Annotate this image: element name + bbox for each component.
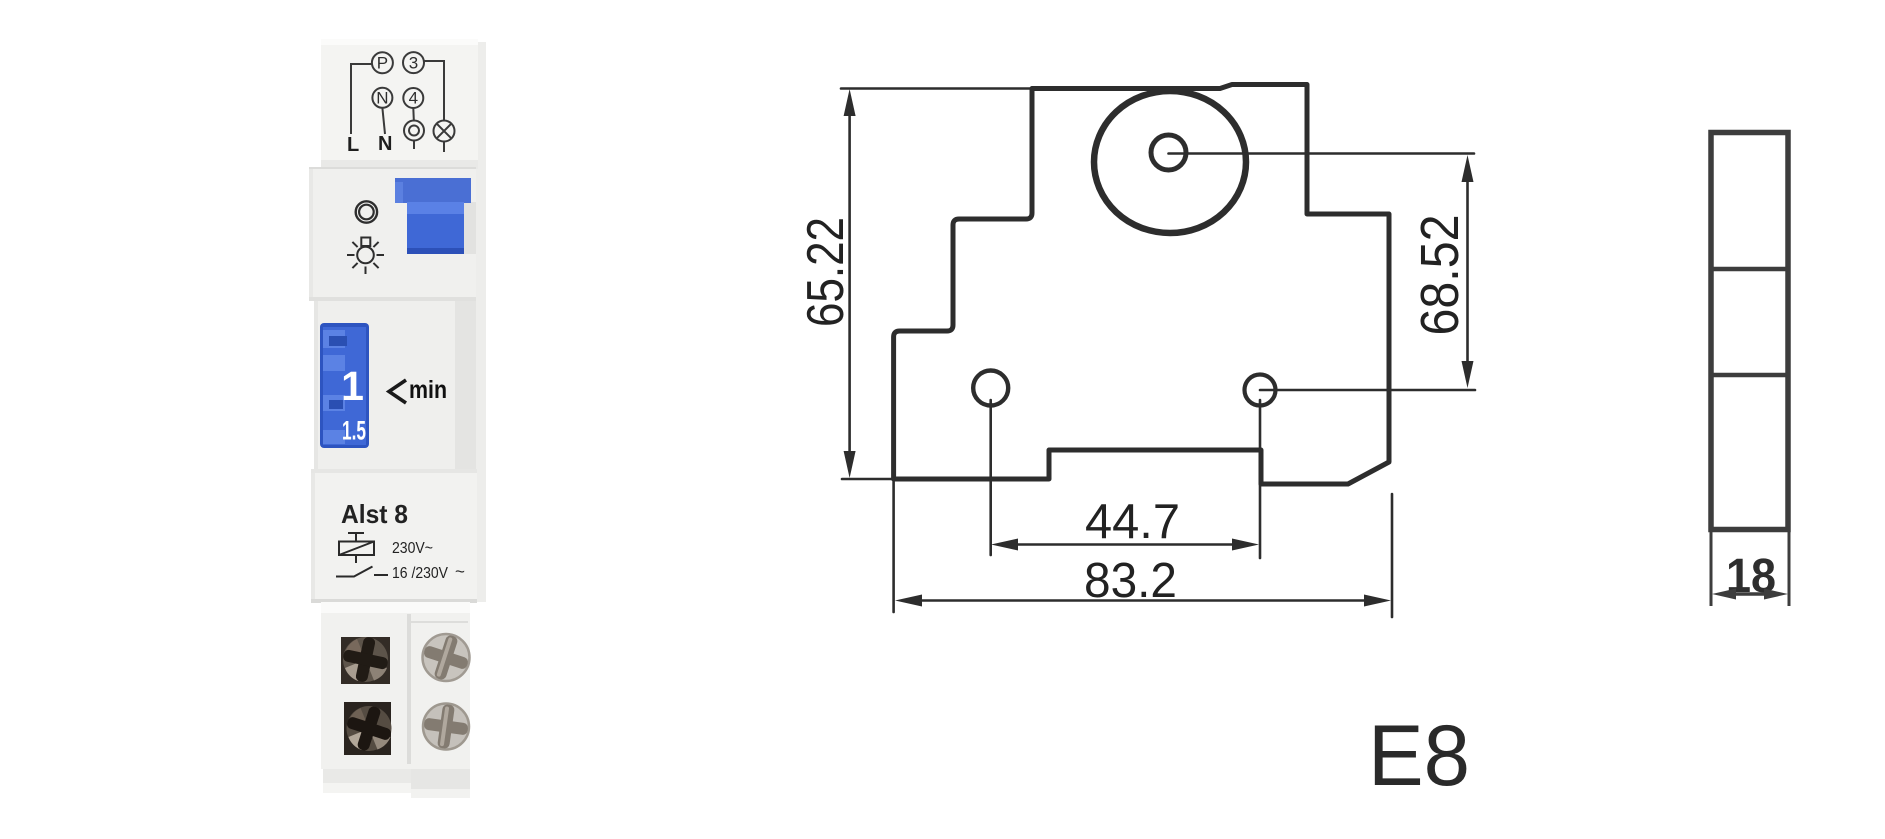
knob circle — [1094, 91, 1246, 233]
ring icon — [356, 201, 377, 222]
svg-text:3: 3 — [409, 53, 418, 72]
screw row1 left — [339, 633, 392, 686]
wiring diagram stub below output — [413, 141, 415, 150]
extension left — [1710, 530, 1713, 606]
mounting hole right — [1245, 375, 1276, 406]
section 2 body — [309, 169, 476, 301]
terminal circle 3 — [403, 52, 424, 73]
svg-text:1: 1 — [341, 363, 364, 409]
profile outline — [1711, 133, 1788, 530]
dimension 44.7 line — [1006, 543, 1244, 546]
dimension 68.52 line — [1466, 170, 1469, 373]
column gap shadow — [407, 614, 411, 764]
terminal circle N — [372, 88, 392, 108]
svg-text:16 /230V: 16 /230V — [392, 565, 448, 582]
screw row1 right — [418, 629, 475, 686]
wiring diagram wire L — [351, 64, 372, 134]
section 4 label area — [311, 469, 477, 602]
svg-text:4: 4 — [409, 89, 418, 108]
bulb icon — [347, 238, 384, 275]
svg-text:min: min — [409, 376, 447, 404]
section 3 body — [314, 301, 476, 469]
extension line below right hole — [1259, 400, 1262, 558]
bottom terminal block — [311, 599, 477, 798]
bottom fade shadow — [323, 769, 411, 783]
svg-text:230V~: 230V~ — [392, 540, 433, 557]
extension line bottom-left — [842, 478, 894, 481]
divider 1 — [1711, 267, 1788, 272]
terminal circle P — [372, 52, 393, 73]
wiring diagram wire lamp branch — [424, 61, 444, 120]
housing outline — [894, 85, 1389, 485]
svg-text:83.2: 83.2 — [1084, 554, 1177, 608]
less-than min marking — [389, 380, 406, 403]
terminal circle 4 — [403, 88, 423, 108]
lamp symbol — [434, 121, 455, 142]
wiring diagram wire N — [382, 108, 385, 134]
extension right — [1788, 530, 1791, 606]
svg-text:P: P — [377, 54, 388, 73]
svg-text:Alst 8: Alst 8 — [341, 499, 408, 529]
mounting hole left — [973, 371, 1008, 406]
contact symbol — [336, 567, 388, 577]
svg-text:L: L — [347, 134, 359, 156]
svg-text:E8: E8 — [1368, 708, 1470, 804]
extension line below left hole — [989, 400, 992, 555]
svg-text:N: N — [378, 133, 392, 155]
screw recess row2 left — [344, 702, 391, 755]
dimension 65.22 line — [848, 105, 851, 462]
device side highlight strip — [476, 42, 486, 602]
svg-text:44.7: 44.7 — [1085, 495, 1180, 549]
blue test button — [395, 178, 471, 254]
svg-text:N: N — [376, 89, 388, 108]
knob center hole — [1151, 135, 1186, 170]
screw recess row1 left — [341, 637, 390, 684]
extension line top-left — [841, 87, 1032, 90]
screw row2 right — [421, 702, 471, 752]
screw row2 left — [341, 700, 398, 757]
divider 2 — [1711, 373, 1788, 378]
svg-text:65.22: 65.22 — [797, 217, 855, 327]
output terminal symbol — [404, 121, 424, 141]
blue timing dial slider — [320, 323, 369, 448]
svg-text:1.5: 1.5 — [342, 416, 366, 446]
extension line 83.2 left — [892, 479, 895, 612]
dimension 83.2 line — [910, 599, 1376, 602]
center line to 68.52 dimension — [1169, 152, 1475, 155]
svg-text:~: ~ — [455, 562, 465, 581]
svg-text:68.52: 68.52 — [1410, 215, 1470, 336]
dimension 18 arrows — [1723, 592, 1777, 595]
relay coil symbol — [339, 533, 374, 563]
extension line 83.2 right — [1391, 494, 1394, 617]
wiring diagram wire 4-output — [412, 108, 415, 120]
hole right center line to 68.52 — [1260, 389, 1475, 392]
wiring diagram stub below lamp — [443, 142, 445, 153]
top terminal cover box — [321, 39, 478, 169]
